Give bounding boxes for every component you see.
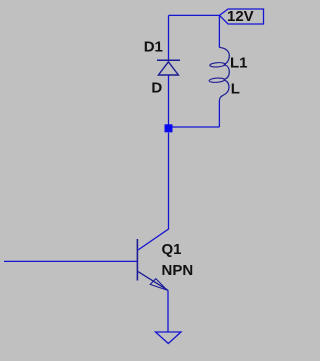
wire emitter vertical to ground bbox=[167, 290, 169, 332]
wire inductor bottom vertical bbox=[218, 101, 220, 128]
wire base horizontal bbox=[4, 260, 137, 262]
wire top horizontal (V+ rail) bbox=[169, 14, 220, 16]
svg-text:NPN: NPN bbox=[162, 262, 194, 279]
wire junction horizontal (node to inductor) bbox=[169, 126, 220, 128]
svg-text:L: L bbox=[231, 81, 240, 98]
wire inductor top vertical bbox=[218, 15, 220, 47]
inductor L1 coil bbox=[219, 47, 229, 100]
wire diode anode to junction node bbox=[168, 75, 170, 125]
transistor Q1 base bar bbox=[136, 239, 138, 281]
svg-text:12V: 12V bbox=[227, 8, 254, 25]
transistor Q1 emitter arrow bbox=[150, 279, 167, 290]
node junction square bbox=[165, 124, 173, 132]
svg-text:Q1: Q1 bbox=[162, 241, 182, 258]
diode D1 triangle bbox=[158, 62, 178, 75]
svg-text:L1: L1 bbox=[230, 54, 248, 71]
inductor L1 crossover ellipse 1 bbox=[210, 62, 226, 67]
ground symbol bbox=[156, 332, 182, 344]
svg-text:D: D bbox=[151, 80, 162, 97]
inductor L1 crossover ellipse 2 bbox=[209, 78, 225, 83]
svg-text:D1: D1 bbox=[144, 39, 163, 56]
diode D1 cathode bar bbox=[157, 59, 180, 61]
wire left vertical (flag corner to diode cathode) bbox=[168, 15, 170, 60]
transistor Q1 emitter diagonal bbox=[138, 272, 168, 291]
wire main vertical (node to collector) bbox=[138, 133, 169, 251]
power flag 12V bbox=[220, 9, 264, 24]
